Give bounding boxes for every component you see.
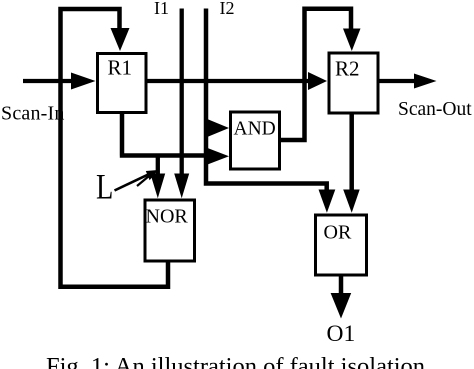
- svg-text:I1: I1: [154, 0, 169, 18]
- wire NOR left input stem: [156, 156, 160, 176]
- arrowhead OR left input: [319, 190, 336, 213]
- arrowhead into R2 top: [343, 29, 361, 52]
- gate OR U3: [316, 215, 367, 275]
- arrowhead NOR left input: [150, 174, 165, 199]
- register R1: [98, 54, 147, 113]
- svg-text:Scan-Out: Scan-Out: [398, 99, 472, 120]
- arrowhead Scan-In into R1: [71, 73, 96, 90]
- svg-text:I2: I2: [220, 0, 235, 18]
- svg-text:Scan-In: Scan-In: [1, 103, 65, 125]
- svg-text:AND: AND: [234, 119, 276, 140]
- register R2: [329, 53, 378, 113]
- arrowhead Scan-Out: [414, 74, 437, 89]
- arrowhead NOR right input: [174, 174, 189, 199]
- wire R2 output to Scan-Out: [379, 79, 416, 83]
- arrowhead AND upper input: [208, 119, 229, 137]
- wire Scan-In input: [23, 79, 73, 83]
- svg-text:R1: R1: [108, 56, 133, 80]
- wire feedback loop NOR output to R1 top: [61, 9, 169, 287]
- wire AND output loop up to R2 top: [281, 9, 351, 140]
- arrowhead AND lower input: [208, 148, 230, 165]
- wire I1 vertical line: [180, 9, 184, 177]
- svg-text:NOR: NOR: [146, 205, 189, 227]
- gate NOR U2: [145, 200, 195, 261]
- arrowhead into R2 left: [308, 72, 327, 90]
- gate AND U1: [231, 112, 280, 169]
- wire R2 bottom stub to OR right input: [349, 113, 354, 190]
- svg-text:Fig. 1: An illustration of fau: Fig. 1: An illustration of fault isolati…: [46, 353, 425, 369]
- wire R1 bottom to AND lower input: [120, 112, 207, 156]
- wire R1 output to R2 input: [147, 79, 309, 83]
- svg-text:O1: O1: [327, 321, 356, 347]
- wire I2 vertical line down then right to OR: [206, 9, 327, 193]
- node L annotation arrow: [115, 173, 152, 190]
- arrowhead O1 output: [331, 293, 352, 319]
- svg-text:OR: OR: [324, 222, 352, 244]
- wire OR output stem: [339, 275, 344, 294]
- arrowhead OR right input: [343, 190, 360, 213]
- svg-text:L: L: [96, 166, 113, 206]
- arrowhead into R1 top: [111, 28, 130, 51]
- svg-text:R2: R2: [335, 57, 360, 81]
